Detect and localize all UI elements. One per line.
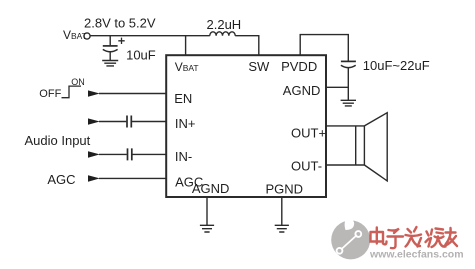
svg-text:OFF: OFF — [39, 88, 61, 100]
svg-text:PVDD: PVDD — [281, 59, 317, 74]
svg-text:Audio Input: Audio Input — [25, 133, 91, 148]
watermark logo elecfans — [331, 214, 370, 260]
wire main VBAT rail — [90, 35, 210, 37]
svg-text:2.8V to 5.2V: 2.8V to 5.2V — [84, 16, 156, 31]
plus sign C1 — [118, 38, 124, 44]
wire inductor to SW corner — [235, 36, 259, 56]
svg-text:VBAT: VBAT — [175, 60, 199, 74]
capacitor C1 10uF — [103, 45, 118, 47]
svg-text:EN: EN — [174, 91, 192, 106]
wire AGC — [99, 177, 166, 179]
wire C1 to ground — [109, 52, 111, 60]
svg-text:www.elecfans.com: www.elecfans.com — [369, 249, 464, 261]
wire PVDD loop — [300, 35, 348, 61]
svg-text:OUT+: OUT+ — [291, 126, 326, 141]
wire C2 to ground — [347, 68, 349, 100]
ground GND2 — [341, 100, 356, 106]
svg-text:IN+: IN+ — [175, 116, 196, 131]
wire AGND pin to C2 — [326, 86, 348, 88]
arrow IN+ input — [88, 118, 100, 124]
wire IN+ left — [99, 121, 126, 123]
watermark text dianzifashaoyou — [371, 227, 458, 248]
wire PGND stem — [281, 197, 283, 225]
speaker LS1 — [356, 126, 365, 165]
wire OUT+ — [326, 125, 364, 127]
svg-text:PGND: PGND — [266, 182, 304, 197]
capacitor C2 10uF~22uF — [341, 60, 356, 62]
ground GND3 — [200, 225, 214, 232]
ground GND1 — [102, 61, 118, 66]
wire IN- right — [133, 153, 167, 155]
wire AGND bottom stem — [206, 197, 208, 225]
wire VBAT pin stem — [185, 36, 187, 56]
svg-text:AGND: AGND — [283, 83, 321, 98]
svg-text:AGND: AGND — [192, 181, 230, 196]
inductor L1 2.2uH — [210, 32, 235, 36]
ground GND4 — [275, 225, 289, 232]
svg-text:10uF~22uF: 10uF~22uF — [363, 58, 430, 73]
wire IN- left — [99, 153, 127, 155]
arrow EN input — [88, 90, 100, 96]
wire OUT- — [326, 164, 364, 166]
svg-text:VBAT: VBAT — [63, 28, 87, 42]
wire EN — [99, 93, 166, 95]
IC U1 body — [166, 55, 326, 197]
capacitor C4 coupling IN- — [128, 148, 132, 160]
svg-text:10uF: 10uF — [126, 48, 156, 63]
svg-text:OUT-: OUT- — [291, 159, 322, 174]
arrow AGC input — [88, 175, 100, 181]
svg-text:2.2uH: 2.2uH — [207, 17, 242, 32]
terminal circle VBAT — [84, 33, 90, 39]
svg-text:AGC: AGC — [47, 172, 75, 187]
arrow IN- input — [88, 151, 100, 157]
svg-text:SW: SW — [248, 59, 270, 74]
wire cap C1 stem top — [109, 36, 111, 46]
svg-text:IN-: IN- — [175, 149, 192, 164]
svg-text:ON: ON — [71, 77, 85, 87]
capacitor C3 coupling IN+ — [127, 116, 131, 128]
wire IN+ right — [132, 121, 166, 123]
